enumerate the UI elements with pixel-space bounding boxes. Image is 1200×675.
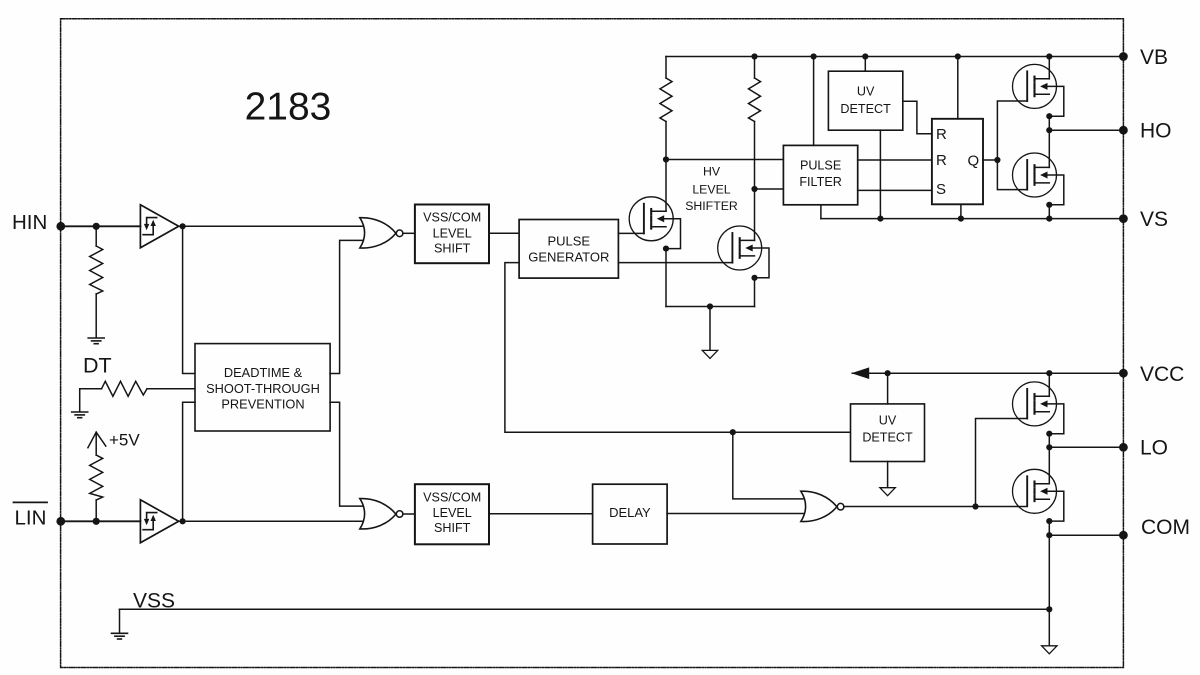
node LO xyxy=(1046,444,1052,450)
VS rail xyxy=(821,218,1124,220)
wire M3 drain to VB xyxy=(1048,57,1050,79)
wire U2 output to gate G2 xyxy=(179,520,367,522)
svg-text:VSS/COM: VSS/COM xyxy=(423,211,481,225)
node VB-latch xyxy=(955,53,961,59)
deadtime box xyxy=(195,344,330,431)
transistor M1 (level shifter left) xyxy=(629,197,680,252)
node VS-UV detect xyxy=(877,216,883,222)
ground arrow bottom right xyxy=(1042,646,1057,654)
hysteresis glyph U1 xyxy=(143,218,157,235)
ground under VSS xyxy=(112,633,128,639)
wire R3 node to pulse filter input 1 xyxy=(666,159,783,161)
node G3 output branch xyxy=(972,503,978,509)
node VSS join xyxy=(1046,606,1052,612)
node VS-latch xyxy=(958,216,964,222)
NOR gate G3 xyxy=(801,491,837,521)
pin VCC dot xyxy=(1119,369,1128,378)
svg-text:VCC: VCC xyxy=(1140,363,1184,386)
wire pulse generator to M1 gate xyxy=(618,232,644,234)
svg-text:UV: UV xyxy=(879,413,897,427)
node R3 to pulse filter xyxy=(663,156,669,162)
wire COM down to VSS node xyxy=(1048,535,1050,609)
wire Q to M3 gate xyxy=(997,101,1027,160)
wire VSS rail xyxy=(120,608,1050,610)
svg-text:Q: Q xyxy=(968,153,980,170)
svg-text:2183: 2183 xyxy=(245,86,332,129)
wire level shift to delay xyxy=(489,513,593,515)
wire pulse filter top pin to VB xyxy=(813,57,815,146)
UV detect box (high side) xyxy=(828,71,902,130)
wire M4 drain to HO xyxy=(1048,130,1050,167)
hysteresis glyph U2 xyxy=(143,513,157,530)
wire level shift to pulse generator xyxy=(489,232,519,234)
svg-text:DT: DT xyxy=(83,354,112,378)
svg-text:GENERATOR: GENERATOR xyxy=(528,250,609,265)
wire UV detect bottom pin to VS xyxy=(879,130,881,218)
wire G1 to level shift box xyxy=(403,232,415,234)
svg-text:LO: LO xyxy=(1140,437,1168,460)
wire deadtime upper-right to gate G1 xyxy=(330,240,367,373)
schmitt buffer U1 (HIN) xyxy=(140,205,178,248)
transistor M3 (high side output upper) xyxy=(1013,64,1064,119)
svg-text:DELAY: DELAY xyxy=(609,505,651,520)
transistor M6 (low side output lower) xyxy=(1013,469,1064,524)
wire DT left stub xyxy=(80,389,102,412)
wire LIN pin to buffer xyxy=(61,520,141,522)
svg-text:DEADTIME &: DEADTIME & xyxy=(224,365,303,380)
wire UV detect top pin to VB xyxy=(864,57,866,72)
wire M2 source down xyxy=(754,278,756,307)
node HO xyxy=(1046,127,1052,133)
resistor R4 xyxy=(749,78,761,122)
svg-text:PULSE: PULSE xyxy=(547,234,590,249)
wire R2 to LIN xyxy=(95,500,97,521)
wire latch bottom pin to VS xyxy=(960,204,962,218)
pin VB dot xyxy=(1119,52,1128,61)
svg-text:UV: UV xyxy=(857,85,875,99)
svg-text:HV: HV xyxy=(703,165,721,179)
svg-text:HIN: HIN xyxy=(12,211,47,234)
schmitt buffer U2 (LIN) xyxy=(140,500,178,543)
pin LIN dot xyxy=(56,517,65,526)
wire pulse generator left output down to low side xyxy=(505,263,851,433)
node R4 to pulse filter xyxy=(751,186,757,192)
svg-text:LIN: LIN xyxy=(15,507,47,530)
svg-text:SHIFT: SHIFT xyxy=(434,521,471,535)
wire UV detect output to latch R xyxy=(903,101,932,134)
resistor R1 (HIN pulldown) xyxy=(90,246,103,294)
svg-text:R: R xyxy=(936,126,947,143)
wire M2 drain up through resistor R4 xyxy=(754,122,756,241)
UV detect box (low side) xyxy=(851,404,925,462)
wire +5V to resistor R2 xyxy=(95,432,97,455)
wire LO to pin xyxy=(1049,446,1123,448)
pin COM dot xyxy=(1119,531,1128,540)
node common rail xyxy=(707,303,713,309)
NOR gate G2 xyxy=(360,499,396,529)
wire U1 output to gate G1 xyxy=(179,225,367,227)
resistor R3 xyxy=(660,78,672,122)
transistor M2 (level shifter right) xyxy=(718,226,769,281)
+5V arrow xyxy=(88,432,106,448)
wire R1 to ground xyxy=(95,294,97,338)
wire down to resistor R1 xyxy=(95,226,97,246)
pulse filter box xyxy=(783,145,857,204)
svg-text:SHIFTER: SHIFTER xyxy=(685,199,738,213)
ground arrow below level shifter xyxy=(702,350,717,358)
wire VSS elbow down xyxy=(119,609,121,632)
VSS/COM level shift box (bottom) xyxy=(415,484,489,544)
svg-text:HO: HO xyxy=(1140,120,1172,143)
svg-text:R: R xyxy=(936,152,947,169)
node HIN resistor tap xyxy=(93,223,100,230)
wire M6 drain to LO xyxy=(1048,447,1050,483)
node low-side branch xyxy=(730,429,736,435)
VSS/COM level shift box (top) xyxy=(415,205,489,264)
pin HO dot xyxy=(1119,126,1128,135)
HV level shifter label xyxy=(685,165,738,214)
wire VB corner to R3 xyxy=(665,57,667,79)
wire HO to pin xyxy=(1049,129,1123,131)
wire level shifter common rail xyxy=(666,306,755,308)
wire pulse generator to M2 gate xyxy=(618,262,732,264)
wire latch Q output xyxy=(983,159,997,161)
svg-text:VB: VB xyxy=(1140,46,1168,69)
transistor M5 (low side output upper) xyxy=(1013,382,1064,437)
ground under DT xyxy=(72,412,88,418)
wire DT resistor to deadtime box xyxy=(147,388,195,390)
svg-text:COM: COM xyxy=(1141,516,1190,539)
VCC rail left arrow xyxy=(851,367,869,379)
pin VS dot xyxy=(1119,214,1128,223)
node VCC-UV detect xyxy=(885,370,891,376)
SR latch box xyxy=(932,119,983,205)
wire common rail to ground arrow xyxy=(709,307,711,351)
svg-text:S: S xyxy=(936,181,946,198)
svg-text:VSS/COM: VSS/COM xyxy=(423,490,481,504)
wire G2 to level shift box xyxy=(403,513,415,515)
node LIN resistor tap xyxy=(93,518,100,525)
pin HIN dot xyxy=(56,222,65,231)
NOR gate G1 xyxy=(360,218,396,248)
wire UV detect top pin to VCC xyxy=(887,373,889,404)
svg-text:DETECT: DETECT xyxy=(862,431,913,445)
svg-text:FILTER: FILTER xyxy=(799,175,841,189)
node VCC-M5 xyxy=(1046,370,1052,376)
svg-text:SHOOT-THROUGH: SHOOT-THROUGH xyxy=(206,381,320,396)
svg-text:LEVEL: LEVEL xyxy=(433,506,472,520)
wire latch top pin to VB xyxy=(957,57,959,119)
wire M5 drain to VCC xyxy=(1048,373,1050,396)
pin LO dot xyxy=(1119,443,1128,452)
wire branch up to M5 gate xyxy=(976,419,1028,507)
wire M1 source down xyxy=(665,249,667,307)
wire M1 drain up through resistor R3 xyxy=(665,122,667,212)
VCC rail xyxy=(852,372,1123,374)
node Q branch xyxy=(994,157,1000,163)
wire branch down to gate G3 xyxy=(733,432,808,499)
svg-text:PREVENTION: PREVENTION xyxy=(221,396,304,411)
pulse generator box xyxy=(519,220,618,279)
node U2 output xyxy=(180,518,186,524)
node VB-UV detect xyxy=(862,53,868,59)
wire deadtime lower-left to buffer U2 xyxy=(183,402,195,521)
wire R4 node to pulse filter input 2 xyxy=(755,188,784,190)
wire M5 source to LO xyxy=(1048,434,1050,448)
wire U1 output down to deadtime box xyxy=(183,226,195,373)
wire M3 source to HO xyxy=(1048,116,1050,130)
node VB-M3 xyxy=(1046,53,1052,59)
svg-text:VS: VS xyxy=(1140,208,1168,231)
wire Q to M4 gate xyxy=(997,160,1027,190)
wire deadtime lower-right to gate G2 xyxy=(330,402,367,506)
node U1 output xyxy=(180,223,186,229)
svg-text:LEVEL: LEVEL xyxy=(433,226,472,240)
wire pulse filter bottom pin to VS xyxy=(820,205,822,219)
wire M6 source to COM xyxy=(1048,521,1050,535)
svg-text:DETECT: DETECT xyxy=(840,102,891,116)
node COM xyxy=(1046,532,1052,538)
resistor R DT xyxy=(102,381,148,396)
wire delay to gate G3 xyxy=(667,513,808,515)
wire pulse filter output S xyxy=(858,189,932,191)
wire VSS node to ground arrow xyxy=(1048,609,1050,645)
svg-text:SHIFT: SHIFT xyxy=(434,241,471,255)
svg-text:+5V: +5V xyxy=(109,430,140,449)
node VS-M4 xyxy=(1046,216,1052,222)
svg-text:PULSE: PULSE xyxy=(800,159,841,173)
node VB-R4 xyxy=(751,53,757,59)
delay box xyxy=(593,484,668,544)
transistor M4 (high side output lower) xyxy=(1013,153,1064,208)
wire pulse filter output R xyxy=(858,159,932,161)
wire M4 source to VS xyxy=(1048,205,1050,219)
wire HIN pin to buffer xyxy=(61,225,141,227)
node VB-pulse filter xyxy=(811,53,817,59)
deadtime box label xyxy=(206,365,320,411)
svg-text:LEVEL: LEVEL xyxy=(692,183,730,197)
wire COM to pin xyxy=(1049,534,1123,536)
ground arrow below UV detect xyxy=(880,488,895,496)
wire VB rail to R4 xyxy=(754,57,756,79)
wire G3 output to M6 gate xyxy=(844,506,1027,508)
wire UV detect bottom pin to ground arrow xyxy=(887,462,889,488)
VB rail xyxy=(666,56,1123,58)
ground under R1 xyxy=(88,338,104,344)
resistor R2 (LIN pullup) xyxy=(90,455,103,500)
